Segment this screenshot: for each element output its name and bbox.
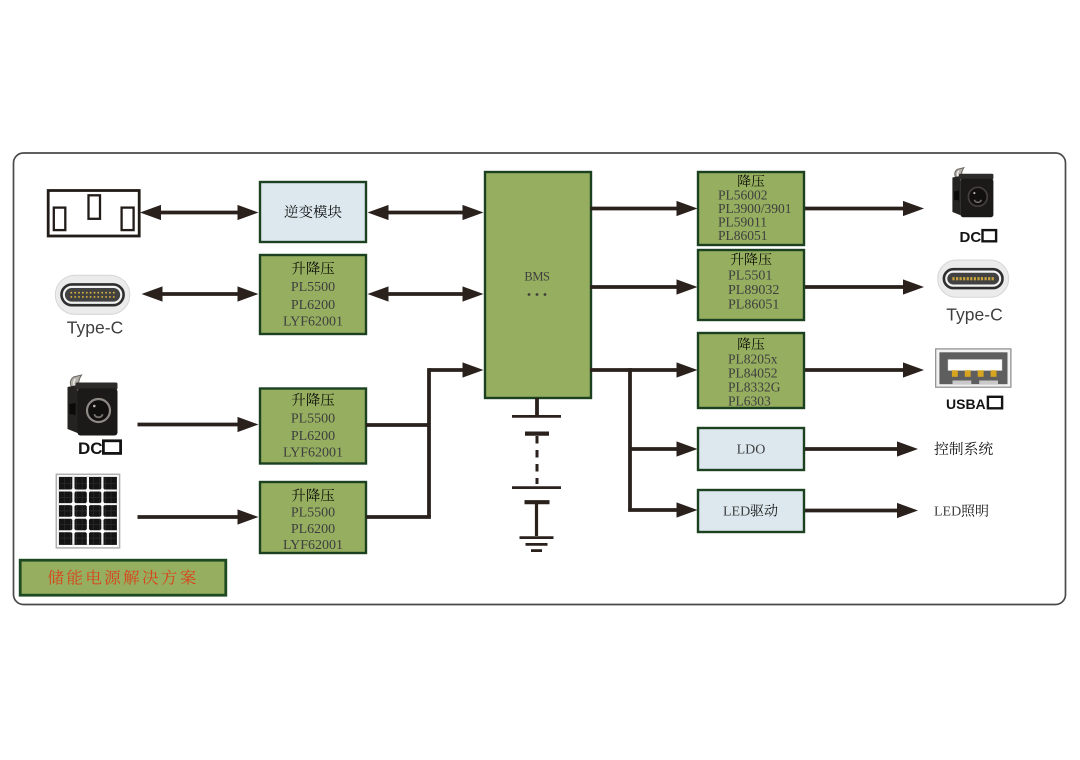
arrow to LED驱动 [628,502,697,517]
DC jack icon (right) [952,168,993,218]
arrow solar panel to 升降压 [138,509,259,524]
block 升降压 PL5500/PL6200/LYF62001 (solar input) [260,482,366,553]
battery cell 1 [512,416,561,433]
arrow 降压 to USBA口 [804,362,924,377]
arrow DC jack to 升降压 [138,417,259,432]
DC口 label (right) [960,229,997,246]
svg-text:PL8332G: PL8332G [728,380,781,395]
svg-text:PL5501: PL5501 [728,269,772,284]
arrow 升降压 to Type-C [804,279,924,294]
svg-text:PL6200: PL6200 [291,429,335,444]
svg-text:PL6200: PL6200 [291,522,335,537]
arrow BMS to 降压 (USB) [590,362,698,377]
svg-text:LED: LED [934,505,961,520]
svg-text:LDO: LDO [737,443,766,458]
svg-text:Type-C: Type-C [67,318,123,338]
wire junction riser [427,368,431,517]
block LED驱动 [698,490,804,532]
svg-text:PL8205x: PL8205x [728,351,778,366]
Type-C connector icon (right) [938,260,1009,297]
svg-text:PL5500: PL5500 [291,506,335,521]
title box 储能电源解决方案 [20,560,226,595]
svg-text:BMS: BMS [524,270,550,284]
block BMS [485,172,591,398]
AC outlet icon [48,191,139,237]
DC口 label (left) [78,439,121,458]
block LDO [698,428,804,470]
svg-text:PL6303: PL6303 [728,394,771,409]
svg-text:PL86051: PL86051 [728,298,779,313]
DC jack icon (left) [68,375,118,436]
double arrow 逆变模块 - BMS [368,205,484,220]
Type-C label (right) [946,305,1002,325]
arrow 降压 to DC口 [804,201,924,216]
arrow BMS to 升降压 (right) [590,279,698,294]
svg-text:PL6200: PL6200 [291,298,335,313]
svg-text:LYF62001: LYF62001 [283,538,343,553]
arrow LED驱动 to LED照明 [804,503,918,518]
svg-text:PL5500: PL5500 [291,280,335,295]
svg-text:PL5500: PL5500 [291,412,335,427]
svg-text:USBA: USBA [946,396,986,412]
wire battery to ground [535,504,538,536]
outer frame border [14,153,1066,605]
block 逆变模块 [260,182,366,242]
svg-text:Type-C: Type-C [946,305,1002,325]
battery cell 2 [512,488,561,503]
double arrow 升降压 - BMS [368,286,484,301]
wire drop to LDO/LED [628,368,632,510]
svg-text:PL89032: PL89032 [728,283,779,298]
svg-text:DC: DC [960,229,982,246]
block 升降压 PL5501/PL89032/PL86051 [698,250,804,320]
block 降压 PL8205x/PL84052/PL8332G/PL6303 [698,333,804,409]
block 升降压 PL5500/PL6200/LYF62001 (DC input) [260,389,366,464]
label 控制系统 [934,442,992,456]
ground [520,538,554,551]
battery dashed continuation [536,436,539,484]
arrow LDO to 控制系统 [804,441,918,456]
block 降压 PL56002/PL3900/PL59011/PL86051 [698,172,804,245]
solar panel icon [56,474,119,548]
wire 升降压 (DC) output [366,423,429,427]
label LED照明 [934,504,988,519]
arrow to LDO [630,441,698,456]
arrow riser to BMS [429,362,484,377]
svg-text:PL86051: PL86051 [718,228,768,243]
Type-C label (left) [67,318,123,338]
svg-text:LYF62001: LYF62001 [283,315,343,330]
wire BMS to battery [535,398,539,415]
svg-text:PL84052: PL84052 [728,366,778,381]
svg-text:LYF62001: LYF62001 [283,446,343,461]
svg-text:DC: DC [78,439,103,458]
USBA口 label [946,396,1002,412]
wire 升降压 (solar) output [366,515,431,519]
block 升降压 PL5500/PL6200/LYF62001 (Type-C input) [260,255,366,334]
double arrow Type-C - 升降压 [142,286,259,301]
Type-C connector icon (left) [55,275,130,314]
double arrow AC outlet - 逆变模块 [140,205,259,220]
USB-A port icon [936,349,1011,387]
svg-text:LED: LED [723,505,750,520]
arrow BMS to 降压 (top) [590,201,698,216]
